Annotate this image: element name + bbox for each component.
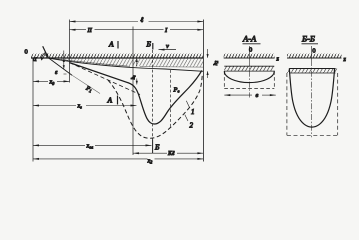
epsilon bottom tick (64, 73, 67, 75)
ground line main (31, 57, 203, 59)
svg-text:Б-Б: Б-Б (301, 34, 315, 44)
section B-B ground hatch (287, 54, 342, 58)
section A-A scour dish curve (224, 71, 274, 82)
svg-text:Рв: Рв (173, 87, 180, 94)
section B-B dashed box bottom (287, 134, 338, 136)
section B-B ground line (287, 57, 342, 59)
svg-text:Кℓ: Кℓ (167, 151, 175, 157)
svg-text:2: 2 (190, 122, 194, 130)
svg-text:z: z (276, 57, 280, 63)
svg-text:ε: ε (55, 70, 58, 76)
section B-B center line (311, 46, 313, 60)
section A-A dashed box right (273, 71, 275, 88)
wedge bottom line (new bed surface) (49, 58, 203, 71)
svg-text:х2: х2 (147, 159, 154, 165)
faint upper wedge line (49, 58, 130, 66)
svg-text:А: А (108, 40, 114, 49)
section B-B bed strip top line (289, 68, 335, 70)
velocity v arrow (159, 49, 177, 51)
section A-A bed strip bottom line (224, 70, 274, 72)
thin continuation of slope line (72, 75, 100, 93)
svg-text:α: α (33, 55, 37, 63)
section A-A dashed box bottom (224, 87, 274, 89)
dimension II (70, 29, 87, 31)
II/I boundary line (132, 27, 134, 156)
depth dimension h_g (136, 58, 138, 66)
dimension x_g (33, 105, 76, 107)
svg-text:А-А: А-А (242, 34, 257, 44)
scour curve 1 solid (70, 63, 202, 124)
dimension Kl (133, 152, 167, 154)
x0 vertical line (69, 20, 71, 83)
section A-A ground line (224, 57, 275, 59)
dimension x_ol (33, 144, 85, 146)
section A-A center line (248, 46, 250, 60)
svg-text:Р1: Р1 (84, 85, 93, 93)
dimension x0 (33, 80, 48, 82)
steep slope line from impact point (49, 58, 72, 75)
section A-A bed strip top line (224, 65, 274, 67)
section B-B bed strip hatch (287, 69, 337, 74)
svg-text:II: II (87, 27, 93, 34)
svg-text:0: 0 (25, 49, 28, 56)
dimension I (133, 29, 164, 31)
svg-text:ℓ: ℓ (140, 16, 144, 24)
dashed jet axis line P1 (70, 63, 141, 95)
svg-text:А: А (107, 96, 113, 105)
section B-B dashed box left (286, 73, 288, 135)
section B-B bed strip bottom line (289, 72, 335, 74)
right boundary line (202, 20, 204, 162)
svg-text:z: z (343, 57, 347, 63)
label 1 with leader (186, 101, 189, 108)
svg-text:h2: h2 (213, 61, 219, 66)
epsilon dimension (63, 51, 65, 69)
svg-text:v: v (166, 43, 169, 50)
section A-A width dimension v (224, 94, 252, 96)
scour diagram figure (0, 0, 359, 174)
svg-text:х0: х0 (49, 80, 56, 86)
dimension x2 (33, 158, 148, 160)
wedge hatch (eroded layer) (49, 58, 203, 67)
svg-text:Б: Б (154, 143, 160, 152)
svg-text:хол: хол (86, 143, 94, 149)
scour curve 2 dashed (108, 74, 202, 139)
section line B bottom tick (152, 140, 154, 154)
dimension L (70, 21, 139, 23)
svg-text:хг: хг (77, 103, 83, 109)
vertical dashed line Pv (170, 70, 172, 128)
svg-text:в: в (256, 92, 259, 99)
section A-A ground hatch (224, 54, 275, 58)
svg-text:1: 1 (191, 108, 195, 116)
svg-text:I: I (164, 27, 168, 34)
jet arrow (43, 46, 48, 56)
section A-A bed strip hatch (224, 66, 274, 71)
svg-text:hг: hг (131, 75, 137, 80)
section B-B dashed box right (337, 73, 339, 135)
svg-text:Б: Б (146, 40, 152, 49)
alpha angle arc (42, 52, 46, 59)
ground hatch band main view (31, 54, 203, 58)
section A-A dashed box left (223, 71, 225, 88)
section B-B scour parabola (289, 69, 334, 128)
svg-text:0: 0 (312, 47, 315, 54)
thin hatch bottom edge line (140, 66, 203, 69)
section line B vertical dashed (152, 50, 154, 140)
left boundary line (32, 58, 34, 162)
label 2 with leader (185, 115, 188, 121)
depth dimension h2 right end (207, 49, 209, 58)
